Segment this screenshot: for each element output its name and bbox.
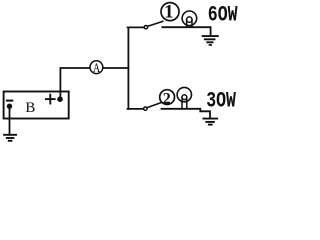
- svg-text:1: 1: [164, 2, 174, 23]
- svg-text:6OW: 6OW: [208, 2, 238, 27]
- svg-text:3OW: 3OW: [206, 88, 236, 113]
- svg-text:2: 2: [163, 90, 171, 107]
- svg-text:A: A: [93, 61, 101, 75]
- svg-text:B: B: [25, 100, 35, 116]
